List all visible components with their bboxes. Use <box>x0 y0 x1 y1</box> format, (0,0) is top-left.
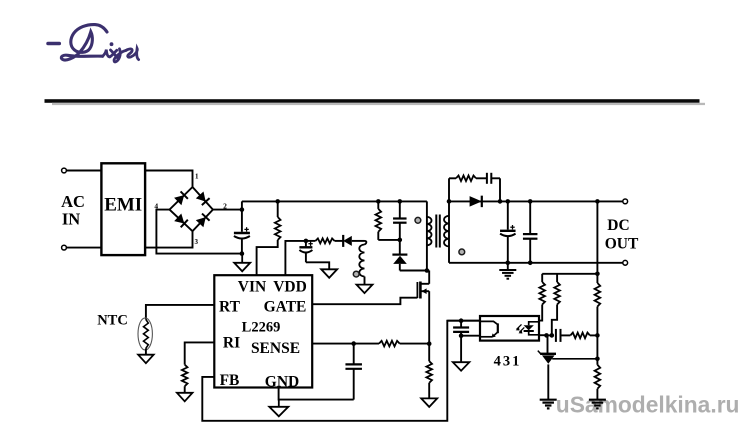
ground IC GND <box>278 400 280 407</box>
svg-text:SENSE: SENSE <box>251 340 300 357</box>
wire C2 to ground <box>306 262 329 269</box>
capacitor C3 (snubber) <box>399 201 401 218</box>
wire R5 to source node <box>400 343 430 345</box>
wire R2 to D1 <box>335 240 344 242</box>
svg-text:EMI: EMI <box>104 195 142 216</box>
node C6 bottom <box>506 261 511 266</box>
transformer secondary winding <box>448 201 450 262</box>
wire secondary snubber top <box>448 178 450 201</box>
ground C1 <box>241 254 243 263</box>
svg-text:DC: DC <box>607 217 629 234</box>
wire RT to NTC <box>146 305 214 320</box>
DC output terminal plus <box>623 199 628 204</box>
svg-text:IN: IN <box>62 210 80 229</box>
wire opto collector to FB node <box>447 320 480 322</box>
node rail snubber R <box>376 199 381 204</box>
capacitor C1 (bulk electrolytic) <box>241 210 243 232</box>
resistor R7 (secondary snubber) <box>449 177 456 179</box>
wire 431 ref <box>552 358 597 360</box>
svg-text:GND: GND <box>265 373 299 390</box>
capacitor C7 (output film) <box>529 201 531 233</box>
wire divider drop <box>596 201 598 273</box>
ground C2 <box>321 269 337 278</box>
ground FB cap <box>460 336 462 363</box>
wire R8 to opto anode <box>539 305 542 321</box>
AC input terminal bottom <box>62 245 67 250</box>
diode D1 (VDD rectifier) <box>343 236 352 246</box>
node source sense <box>427 341 432 346</box>
phase dot secondary <box>459 249 465 255</box>
phase dot primary <box>415 217 421 223</box>
wire EMI to bridge bottom <box>145 231 192 247</box>
wire opto emitter <box>461 335 480 337</box>
svg-text:AC: AC <box>61 192 85 211</box>
node rail R1 <box>275 199 280 204</box>
wire AC bottom to EMI <box>67 247 102 249</box>
bridge diode D-c (left to bottom) <box>174 214 184 224</box>
wire FB loop <box>202 321 480 421</box>
node output C6 <box>506 199 511 204</box>
svg-text:3: 3 <box>195 238 199 246</box>
bridge diode D-d (bottom to right) <box>196 217 206 227</box>
node FB cap <box>459 318 464 323</box>
earth ground output <box>507 263 509 270</box>
node 431 cathode <box>544 333 549 338</box>
node C1 bottom <box>240 251 245 256</box>
node divider top <box>595 272 600 277</box>
node ref junction <box>595 357 600 362</box>
resistor R11 (divider lower) <box>596 359 598 365</box>
diode D2 (clamp) <box>399 240 401 254</box>
svg-text:L2269: L2269 <box>242 320 281 336</box>
resistor R10 (divider upper) <box>596 274 598 283</box>
node rail snubber C <box>398 199 403 204</box>
node sense cap <box>351 341 356 346</box>
optocoupler U2 <box>480 316 539 341</box>
transistor Q1 (MOSFET) <box>416 282 418 298</box>
node comp junction <box>595 333 600 338</box>
earth ground 431 <box>540 399 557 401</box>
svg-text:FB: FB <box>220 372 240 389</box>
resistor R6 (current sense) <box>428 344 430 362</box>
wire snubber to output <box>499 178 501 201</box>
wire VDD pin up <box>285 241 306 275</box>
wire snubber RC tie <box>378 239 400 241</box>
ground R6 <box>421 398 437 407</box>
resistor R5 (sense series) <box>379 341 400 347</box>
wire secondary bottom rail <box>449 262 625 264</box>
wire clamp to drain node <box>400 270 429 272</box>
EMI filter block <box>101 163 145 255</box>
node R9 tie <box>550 333 555 338</box>
svg-text:uSamodelkina.ru: uSamodelkina.ru <box>556 392 740 418</box>
wire 431 anode <box>547 364 549 399</box>
svg-text:431: 431 <box>494 354 522 370</box>
wire RI to R4 <box>185 342 215 364</box>
svg-text:RI: RI <box>223 335 240 352</box>
svg-text:GATE: GATE <box>264 299 307 316</box>
bridge diode D-a (left to top) <box>174 195 184 205</box>
svg-text:1: 1 <box>195 173 199 181</box>
wire R1 to VIN <box>257 240 278 275</box>
transformer core <box>435 215 437 248</box>
resistor R9 (431 bias) <box>556 274 558 282</box>
svg-text:RT: RT <box>219 299 241 316</box>
node primary bottom <box>425 268 430 273</box>
AC input terminal top <box>62 168 67 173</box>
node output divider tap <box>595 199 600 204</box>
node bridge plus <box>240 207 245 212</box>
wire main rail <box>242 200 427 202</box>
shunt regulator U3 TL431 <box>547 335 549 353</box>
svg-text:VIN: VIN <box>238 279 266 296</box>
node emitter tie <box>459 333 464 338</box>
resistor R12 (compensation) <box>561 334 571 336</box>
transformer primary winding <box>426 201 428 270</box>
node VDD cap <box>304 239 309 244</box>
phase dot aux winding <box>353 271 359 277</box>
capacitor C6 (output electrolytic) <box>507 201 509 229</box>
bridge diode D-b (top to right) <box>196 192 206 202</box>
ground NTC <box>138 355 154 364</box>
wire R9 to cathode node <box>552 305 557 336</box>
node output C7 <box>528 199 533 204</box>
svg-text:OUT: OUT <box>605 236 639 253</box>
DC output terminal minus <box>623 260 628 265</box>
wire opto cathode to 431 <box>539 334 547 336</box>
wire GND pin <box>279 388 354 400</box>
bridge rectifier diamond <box>170 187 213 231</box>
wire gate to IC GATE <box>313 298 418 305</box>
wire bridge minus to bottom rail <box>156 210 242 254</box>
capacitor C4 (sense filter) <box>353 344 355 364</box>
wire AC top to EMI <box>67 170 102 172</box>
wire VDD line <box>306 240 316 242</box>
resistor R1 (startup) <box>277 201 279 217</box>
diode D3 (output rectifier) <box>470 196 482 207</box>
wire EMI to bridge top <box>145 171 192 188</box>
svg-text:NTC: NTC <box>97 313 128 329</box>
wire D1 to aux winding <box>352 240 365 242</box>
IC U1 L2269 <box>214 275 312 387</box>
node C7 bottom <box>528 261 533 266</box>
logo script 'Lixe' <box>48 25 139 62</box>
capacitor C9 (compensation) <box>547 334 554 336</box>
ground aux winding <box>357 285 373 294</box>
capacitor C5 (secondary snubber) <box>476 177 487 179</box>
node secondary top <box>447 199 452 204</box>
aux winding W3 <box>365 241 367 245</box>
node snubber rejoin <box>498 199 503 204</box>
resistor R2 (VDD series) <box>316 238 335 243</box>
wire SENSE <box>313 343 379 345</box>
wire bias feed <box>542 273 597 275</box>
wire bridge plus to main rail <box>213 201 242 209</box>
capacitor C8 (FB filter) <box>460 321 462 327</box>
thermistor NTC <box>138 318 152 350</box>
wire secondary output <box>449 200 625 202</box>
node snubber tie <box>398 238 403 243</box>
capacitor C2 (VDD electrolytic) <box>305 241 307 247</box>
horizontal rule <box>45 99 700 103</box>
earth ground divider <box>589 399 606 401</box>
svg-text:VDD: VDD <box>273 279 307 296</box>
resistor R8 (opto bias) <box>541 274 543 282</box>
resistor R4 (RI) <box>182 365 188 387</box>
resistor R3 (snubber) <box>377 201 379 209</box>
ground R4 <box>177 393 193 402</box>
